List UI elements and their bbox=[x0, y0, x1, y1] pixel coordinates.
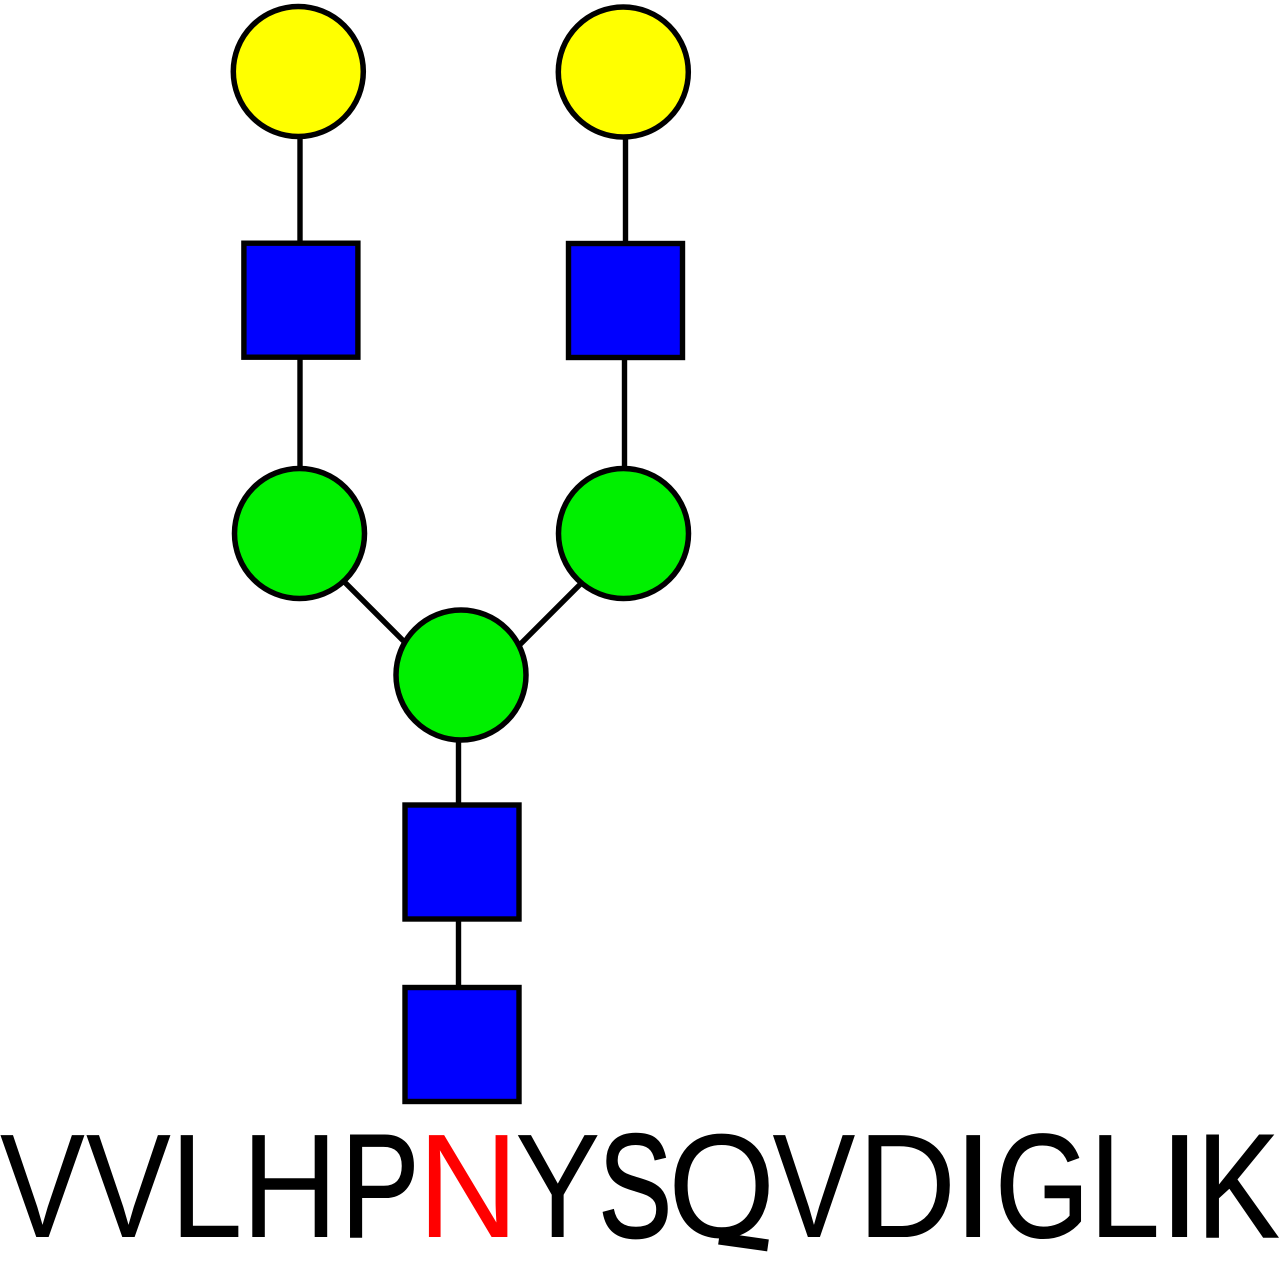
svg-text:Y: Y bbox=[515, 1104, 600, 1269]
svg-text:L: L bbox=[1089, 1104, 1161, 1269]
residue Q9 (tail) bbox=[719, 1239, 768, 1246]
GlcNAc5 (blue square, right branch) bbox=[569, 244, 683, 358]
svg-text:L: L bbox=[170, 1103, 243, 1268]
svg-text:I: I bbox=[1157, 1103, 1202, 1269]
wire Man4 to Man1 bbox=[498, 545, 620, 667]
galactose Gal1 (yellow circle, left) bbox=[233, 7, 363, 137]
Man3 (green circle, left) bbox=[235, 469, 365, 599]
svg-text:H: H bbox=[241, 1103, 338, 1269]
svg-text:V: V bbox=[86, 1104, 171, 1269]
svg-text:S: S bbox=[598, 1103, 672, 1268]
wire GlcNAc2 to GlcNAc1 bbox=[456, 862, 461, 1045]
svg-text:D: D bbox=[857, 1104, 956, 1269]
svg-text:K: K bbox=[1197, 1103, 1279, 1268]
svg-text:V: V bbox=[772, 1103, 855, 1269]
wire GlcNAc5 to Man4 bbox=[622, 300, 627, 534]
svg-text:P: P bbox=[341, 1104, 420, 1269]
galactose Gal2 (yellow circle, right) bbox=[558, 7, 688, 137]
svg-text:G: G bbox=[995, 1103, 1090, 1269]
peptide sequence VVLHPNYSQVDIGLIK with glycosylated N site in red bbox=[0, 1103, 1279, 1270]
GlcNAc1 (blue square, reducing end) bbox=[405, 988, 519, 1102]
svg-text:N: N bbox=[417, 1103, 518, 1269]
GlcNAc4 (blue square, left branch) bbox=[244, 243, 358, 357]
svg-text:V: V bbox=[0, 1104, 85, 1269]
wire Gal2 to GlcNAc5 bbox=[623, 72, 628, 300]
wire Man1 to GlcNAc2 bbox=[456, 675, 461, 862]
wire Man3 to Man1 bbox=[305, 543, 428, 666]
Man4 (green circle, right) bbox=[559, 469, 689, 599]
svg-text:I: I bbox=[953, 1104, 994, 1269]
wire Gal1 to GlcNAc4 bbox=[297, 72, 302, 301]
Man1 (green circle, core) bbox=[396, 610, 526, 740]
wire GlcNAc4 to Man3 bbox=[297, 300, 302, 534]
GlcNAc2 (blue square, core) bbox=[405, 805, 519, 919]
